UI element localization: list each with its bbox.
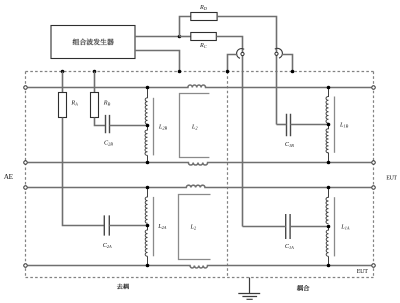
switch S1 pivot circle [241,52,244,55]
node L2A bottom [146,264,150,268]
switch S1 wiper arc [237,49,245,59]
ground symbol [238,278,260,300]
inductor L1A winding [326,188,329,266]
wire switch1 column to C1A [243,226,286,228]
wire bus to RB [94,72,96,93]
node generator output junction [178,35,182,39]
wire branch to RC [180,36,191,38]
wire line3 conductor with L2 winding [28,185,371,187]
switch S2 wiper arc [275,48,283,58]
svg-text:L2A: L2A [157,223,167,230]
wire RB to C2B [95,118,106,126]
node RB on dashed bus [93,70,97,74]
AE-side terminal line4 [24,264,28,268]
svg-text:C1A: C1A [285,243,294,250]
wire line1 top conductor with L2 winding [28,85,371,88]
dashed enclosure bottom border [26,277,374,279]
capacitor C2A [104,215,109,235]
wire line4 bottom conductor with L2 winding [28,266,371,269]
svg-text:RA: RA [70,99,78,106]
inductor L1B winding [326,88,329,163]
resistor RB [91,93,99,118]
node L2B top [146,86,150,90]
wire C1A to L1A tap [290,226,328,228]
capacitor C1A [286,214,290,239]
inductor L2B winding [145,88,148,163]
node L1B centre tap [327,123,331,127]
svg-text:RC: RC [199,42,207,49]
dashed enclosure top border / surge injection bus [26,71,374,73]
node L1B top [327,86,331,90]
node RA on dashed bus [61,70,65,74]
resistor RD [191,13,217,21]
svg-text:AE: AE [4,172,14,181]
EUT-side terminal line4 [372,264,376,268]
svg-text:L2B: L2B [158,124,168,131]
dashed enclosure left border [25,72,27,278]
resistor RA [59,93,67,118]
EUT-side terminal line1 [372,86,376,90]
svg-text:L2: L2 [191,124,198,131]
resistor RC [191,33,217,41]
svg-text:L1B: L1B [339,121,349,128]
inductor L2A core [153,197,155,256]
wire RC to switch1 column [216,37,242,227]
wire generator top output [135,36,180,38]
wire switch1 throw to surge bus [228,55,238,72]
node L2A centre tap [146,224,150,228]
svg-text:RB: RB [103,99,111,106]
svg-text:EUT: EUT [357,268,368,275]
node L1A bottom [327,264,331,268]
AE-side terminal line1 [24,86,28,90]
AE-side terminal line2 [24,161,28,165]
node L2B centre tap [146,124,150,128]
label 去耦 decoupling [117,284,129,290]
wire switch2 throw to surge bus [282,55,293,72]
wire C2B to L2B tap [110,125,148,127]
inductor L1B core [334,97,336,153]
wire line2 conductor with L2 winding [28,163,371,166]
switch S2 pivot circle [275,52,278,55]
EUT-side terminal line3 [372,186,376,190]
wire branch up to RD [180,17,191,37]
svg-text:C2A: C2A [103,242,112,249]
dashed enclosure right border [373,72,375,278]
wire bus to RA [62,72,64,93]
svg-text:C2B: C2B [104,139,113,146]
dashed separator decoupling/coupling [227,72,229,278]
choke L2 lower core bracket [179,195,211,260]
generator label 组合波发生器 [73,39,114,46]
svg-text:EUT: EUT [386,175,397,181]
svg-text:RD: RD [199,4,208,11]
svg-text:L2: L2 [190,224,197,231]
node lower output on dashed bus [178,70,182,74]
node L1B bottom [327,161,331,165]
label 耦合 coupling [297,285,310,291]
inductor L1A core [334,197,336,256]
inductor L2A winding [145,188,147,266]
node L2B bottom [146,161,150,165]
node switch1 on dashed bus [226,70,230,74]
wire RA down to C2A [63,118,105,226]
capacitor C2B [106,115,110,133]
wire switch2 column to C1B [277,124,287,126]
svg-text:L1A: L1A [340,224,350,231]
EUT-side terminal line2 [372,161,376,165]
AE-side terminal line3 [24,186,28,190]
wire C1B to L1B tap [291,124,329,126]
wire generator lower output to surge bus [135,51,180,72]
wire RD to switch2 column [217,17,276,125]
node switch2 on dashed bus [291,70,295,74]
combination wave generator box [51,26,135,59]
capacitor C1B [287,114,291,137]
node L1A top [327,186,331,190]
svg-text:C1B: C1B [285,141,294,148]
wire C2A to L2A tap [109,225,147,227]
node L2A top [146,186,150,190]
choke L2 upper core bracket [180,94,210,158]
node L1A centre tap [327,225,331,229]
inductor L2B core [153,98,155,156]
